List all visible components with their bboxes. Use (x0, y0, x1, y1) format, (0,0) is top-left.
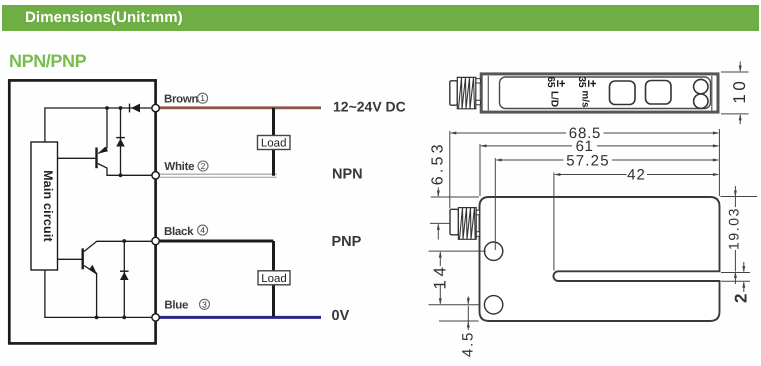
svg-text:14: 14 (430, 264, 449, 290)
svg-text:57.25: 57.25 (566, 153, 610, 170)
svg-text:±: ± (585, 80, 600, 87)
svg-text:3: 3 (202, 299, 207, 309)
svg-text:1: 1 (200, 93, 205, 103)
svg-text:Main circuit: Main circuit (41, 170, 55, 242)
svg-text:0V: 0V (332, 308, 350, 324)
svg-text:Load: Load (261, 273, 287, 285)
svg-text:19.03: 19.03 (725, 207, 741, 250)
svg-text:12~24V DC: 12~24V DC (333, 99, 406, 115)
svg-text:10: 10 (730, 78, 749, 104)
svg-text:4.5: 4.5 (459, 331, 476, 357)
svg-text:Brown: Brown (164, 94, 199, 106)
svg-text:NPN: NPN (332, 167, 363, 183)
svg-text:2: 2 (731, 294, 750, 303)
svg-text:2: 2 (201, 161, 206, 171)
svg-text:Blue: Blue (164, 300, 188, 312)
svg-text:PNP: PNP (332, 234, 362, 250)
svg-text:Load: Load (261, 138, 287, 150)
svg-text:±: ± (554, 80, 569, 87)
svg-text:White: White (164, 161, 194, 173)
svg-text:L/D: L/D (549, 91, 560, 107)
svg-text:42: 42 (627, 167, 646, 184)
svg-text:Black: Black (164, 226, 194, 238)
svg-text:4: 4 (200, 225, 205, 235)
svg-text:m/s: m/s (580, 90, 591, 108)
svg-text:6.53: 6.53 (430, 141, 447, 185)
